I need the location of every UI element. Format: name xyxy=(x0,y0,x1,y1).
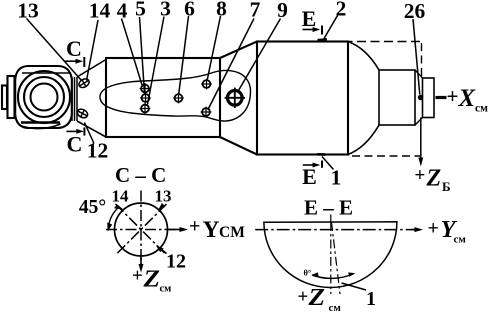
screw 13/14 top xyxy=(77,77,90,89)
leader 26 xyxy=(413,19,420,95)
svg-text:14: 14 xyxy=(112,187,130,206)
svg-text:+: + xyxy=(298,287,309,308)
svg-text:+: + xyxy=(415,165,426,186)
E-E angle arc arrowhead xyxy=(311,272,318,276)
leader 2 xyxy=(324,16,338,39)
section E-E half disc xyxy=(264,222,397,288)
chamfer top xyxy=(415,70,423,78)
svg-text:+: + xyxy=(132,266,143,287)
svg-text:E: E xyxy=(302,164,317,189)
E-E leader 1 xyxy=(342,283,367,290)
svg-text:см: см xyxy=(160,284,172,295)
svg-text:Б: Б xyxy=(442,179,451,194)
E-E angle arc xyxy=(312,274,354,279)
C-C Y arrow xyxy=(168,227,189,232)
screw 3 xyxy=(140,103,151,114)
phantom body right dashed xyxy=(421,43,423,78)
svg-text:26: 26 xyxy=(404,0,426,23)
cover plate blob outline xyxy=(100,70,251,121)
leader 3 xyxy=(148,17,165,105)
svg-text:1: 1 xyxy=(366,288,376,310)
lens ring outer xyxy=(18,71,70,123)
screw 7 xyxy=(201,107,212,118)
svg-text:8: 8 xyxy=(216,0,227,21)
section arrow C bottom xyxy=(66,127,84,135)
svg-text:4: 4 xyxy=(117,0,128,23)
leader 14 xyxy=(87,20,99,81)
ogive bottom xyxy=(348,125,379,155)
E-E tilted axis xyxy=(332,222,341,294)
svg-text:СМ: СМ xyxy=(219,224,245,241)
svg-text:7: 7 xyxy=(250,0,261,22)
svg-text:6: 6 xyxy=(184,0,195,21)
C-C 45 arc arrowhead xyxy=(107,223,112,232)
section arrow E top xyxy=(303,26,323,35)
X axis bar xyxy=(436,96,447,99)
head top chord xyxy=(22,72,71,74)
svg-text:+: + xyxy=(447,84,459,108)
svg-text:1: 1 xyxy=(331,166,342,190)
svg-text:13: 13 xyxy=(17,0,39,23)
lens flange xyxy=(8,76,15,118)
C-C axis vertical xyxy=(140,191,142,269)
svg-text:14: 14 xyxy=(89,0,111,23)
svg-text:C: C xyxy=(67,132,83,157)
leader 4 xyxy=(122,19,143,86)
svg-text:+: + xyxy=(189,216,200,238)
svg-text:12: 12 xyxy=(166,251,186,273)
E-E center tick xyxy=(330,215,332,224)
leader 5 xyxy=(140,17,145,94)
svg-text:см: см xyxy=(329,302,342,313)
cylinder section 3 xyxy=(379,70,415,125)
leader 12 main xyxy=(85,123,95,144)
svg-text:θ°: θ° xyxy=(304,268,312,278)
phantom body top dashed xyxy=(330,41,422,43)
Z body axis arrowhead xyxy=(418,158,423,167)
svg-text:C – C: C – C xyxy=(115,163,166,187)
bracket top slant xyxy=(77,60,106,78)
screw 4 xyxy=(140,83,151,94)
svg-text:C: C xyxy=(66,36,82,61)
head bottom chord xyxy=(21,121,60,124)
leader 13 xyxy=(27,19,82,81)
E-E angle arc tick right xyxy=(348,272,355,276)
leader 9 xyxy=(239,19,281,91)
leader 2 tick xyxy=(318,38,328,41)
svg-text:Y: Y xyxy=(203,217,220,243)
camera head body xyxy=(15,66,72,128)
Z body axis line xyxy=(420,118,422,163)
svg-text:X: X xyxy=(458,85,477,112)
svg-text:Z: Z xyxy=(307,284,325,311)
section arrow C top xyxy=(65,57,85,67)
leader 1 tick xyxy=(317,153,326,156)
svg-text:см: см xyxy=(475,103,488,115)
cylinder section 2 xyxy=(257,42,348,155)
C-C axis horizontal xyxy=(106,229,181,231)
C-C Z arrow xyxy=(139,257,144,273)
C-C 45 deg arc xyxy=(108,207,119,230)
E-E Y axis xyxy=(255,229,419,231)
svg-text:2: 2 xyxy=(336,0,347,21)
lens ring inner xyxy=(31,84,58,111)
leader 1 xyxy=(322,157,334,170)
leader 8 xyxy=(207,16,220,80)
svg-text:E – E: E – E xyxy=(304,196,353,220)
chamfer bottom xyxy=(415,118,423,126)
phantom body bottom dashed xyxy=(352,155,420,157)
lens hood tab xyxy=(2,86,7,110)
ogive top xyxy=(348,42,379,71)
gimbal band xyxy=(72,77,77,121)
cylinder section 1 xyxy=(106,58,220,137)
screw 6 xyxy=(173,93,184,104)
lens ring middle xyxy=(24,77,64,117)
end cap xyxy=(423,78,435,118)
svg-text:13: 13 xyxy=(155,187,172,206)
head bottom arc xyxy=(20,124,61,129)
cone transition top xyxy=(220,42,257,59)
screw 12 bottom xyxy=(76,108,89,120)
E-E Y arrowhead xyxy=(411,227,423,232)
svg-text:12: 12 xyxy=(87,139,109,163)
svg-text:5: 5 xyxy=(135,0,146,21)
screw 5 xyxy=(140,93,151,104)
cone transition bottom xyxy=(220,137,257,155)
center of mass dot xyxy=(418,95,423,100)
svg-text:3: 3 xyxy=(160,0,171,21)
section C-C circle xyxy=(115,203,168,256)
svg-text:Z: Z xyxy=(142,267,160,293)
C-C diagonal 13 xyxy=(116,204,167,255)
C-C diagonal 14-12 xyxy=(116,204,167,255)
C-C arrow 14 xyxy=(114,204,124,209)
leader 7 xyxy=(209,19,255,109)
svg-text:45°: 45° xyxy=(79,197,106,218)
svg-text:9: 9 xyxy=(277,0,288,22)
svg-text:+: + xyxy=(428,218,439,240)
svg-text:Z: Z xyxy=(426,166,442,192)
svg-text:см: см xyxy=(454,234,467,246)
svg-text:E: E xyxy=(302,6,317,31)
screw 8 xyxy=(201,79,212,90)
bracket bottom slant xyxy=(77,121,106,137)
screw 9 large xyxy=(225,88,245,108)
leader 6 xyxy=(179,16,189,94)
E-E vertical axis xyxy=(330,222,332,294)
section arrow E bottom xyxy=(303,161,322,168)
C-C arrow 13 xyxy=(158,203,166,210)
C-C arrow 12 xyxy=(156,246,167,254)
